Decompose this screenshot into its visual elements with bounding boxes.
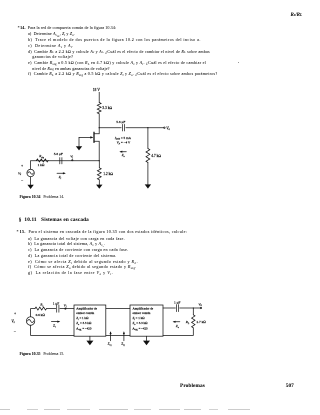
transistor Q1 JFET channel	[93, 132, 95, 142]
wire node to RL	[192, 308, 194, 315]
wire gate to ground	[78, 137, 80, 146]
resistor Rsig 1 kOhm	[36, 154, 48, 167]
svg-text:Zi: Zi	[53, 324, 56, 329]
svg-text:Zo1: Zo1	[108, 342, 112, 347]
svg-text:−: −	[14, 329, 17, 334]
ground (RL)	[145, 184, 151, 188]
node source junction	[99, 160, 100, 161]
wire R1 to drain node	[98, 114, 100, 134]
wire Vs to top rail	[31, 309, 35, 317]
capacitor 5.6 uF (input)	[54, 152, 63, 164]
page footer	[180, 384, 205, 389]
node RL junction	[147, 127, 148, 128]
node Vi	[64, 304, 67, 310]
arrow Zi	[57, 172, 66, 180]
resistor Rs 0.6 kOhm	[35, 303, 47, 317]
label plus	[14, 311, 16, 315]
svg-text:Zo = 3.3 kΩ: Zo = 3.3 kΩ	[133, 321, 149, 326]
svg-text:Vi: Vi	[64, 304, 67, 309]
svg-text:Vo: Vo	[198, 302, 202, 307]
svg-text:2.7 kΩ: 2.7 kΩ	[197, 320, 207, 324]
ground (block1)	[86, 341, 93, 346]
svg-text:Zi = 1 kΩ: Zi = 1 kΩ	[133, 316, 146, 321]
label minus	[14, 329, 17, 334]
svg-text:RL: RL	[185, 320, 190, 325]
capacitor 1 uF (input)	[53, 301, 60, 312]
problem 15 text block	[17, 230, 188, 234]
ground (block2)	[143, 341, 150, 346]
wire cap to Vo	[180, 307, 201, 309]
wire cap to Vo	[126, 127, 163, 129]
svg-text:0.6 kΩ: 0.6 kΩ	[36, 313, 46, 317]
resistor RS 1.2 kOhm	[97, 168, 113, 180]
source Vs circle	[27, 169, 34, 176]
wire Rs to cap	[47, 308, 56, 310]
ground stub block1	[89, 336, 91, 340]
node Vi	[70, 155, 73, 161]
wire supply to R1	[98, 92, 100, 102]
wire RL to bottom rail	[163, 328, 193, 336]
wire drain node to output cap	[99, 127, 121, 129]
wire between blocks (bottom)	[106, 334, 130, 336]
arrow Zo	[173, 321, 180, 329]
bottom rail left	[31, 325, 74, 335]
page number	[286, 384, 294, 389]
ground stub block2	[146, 336, 148, 340]
ground (Vs)	[27, 185, 33, 189]
svg-text:Zo: Zo	[176, 324, 180, 329]
node RL junction	[193, 307, 194, 308]
caption figura 10.35	[20, 353, 65, 357]
svg-text:Zi2: Zi2	[121, 342, 125, 347]
capacitor 1 uF (output)	[174, 301, 181, 312]
svg-text:1 μF: 1 μF	[174, 301, 181, 305]
resistor 3.3 kOhm	[97, 103, 112, 114]
svg-text:emisor común: emisor común	[133, 311, 151, 315]
svg-text:AvNL = −420: AvNL = −420	[75, 327, 92, 332]
svg-text:Zo = 3.3 kΩ: Zo = 3.3 kΩ	[76, 321, 92, 326]
resistor RL 4.7 kOhm	[146, 149, 161, 163]
amplifier block U1	[74, 305, 106, 336]
svg-text:Vs: Vs	[11, 319, 14, 324]
arrow Zi2	[121, 331, 125, 347]
wire source node down to RS resistor	[98, 161, 100, 168]
amplifier block U2	[130, 305, 163, 336]
label minus	[21, 178, 24, 183]
ground (gate)	[76, 146, 82, 150]
svg-text:emisor común: emisor común	[76, 311, 94, 315]
terminal Vo	[164, 126, 171, 131]
problem 14 text block	[18, 26, 117, 30]
resistor RL 2.7 kOhm	[185, 315, 206, 328]
arrow Zo1	[108, 331, 112, 347]
running head Rs/RL	[291, 13, 303, 18]
wire RL to ground	[147, 163, 149, 185]
gate lead with arrow	[79, 136, 93, 138]
wire block2 to output cap	[163, 307, 175, 309]
wire node to RL	[147, 128, 149, 149]
bottom page-edge artifact dashes	[0, 409, 320, 410]
label IDSS VP	[114, 136, 132, 146]
wire source bottom	[30, 177, 32, 185]
drain lead	[95, 133, 100, 135]
svg-text:Zi = 1 kΩ: Zi = 1 kΩ	[76, 316, 89, 321]
wire between blocks (top)	[106, 308, 130, 310]
source Vs circle	[26, 317, 34, 325]
svg-text:1 μF: 1 μF	[53, 301, 60, 305]
ground (RS)	[96, 185, 102, 189]
source lead	[95, 141, 100, 161]
node drain junction	[99, 127, 100, 128]
supply label 18 V	[93, 88, 101, 92]
label Vs	[11, 319, 14, 324]
stray ink speck	[238, 62, 239, 63]
label Vs	[18, 171, 21, 176]
wire Vi rail	[31, 160, 100, 162]
svg-text:AvNL = −420: AvNL = −420	[132, 327, 149, 332]
capacitor 5.6 uF (output)	[116, 120, 125, 131]
arrow Zo	[119, 151, 126, 158]
svg-text:+: +	[14, 311, 16, 315]
wire cap to block1	[60, 308, 74, 310]
svg-text:Rs: Rs	[39, 303, 43, 308]
wire source top	[30, 161, 32, 170]
arrow Zi	[51, 321, 60, 329]
label plus	[21, 164, 23, 168]
caption figura 10.34	[20, 196, 65, 200]
wire RS to ground	[98, 180, 100, 185]
terminal Vo	[198, 302, 202, 308]
section heading 10.11	[19, 218, 89, 223]
